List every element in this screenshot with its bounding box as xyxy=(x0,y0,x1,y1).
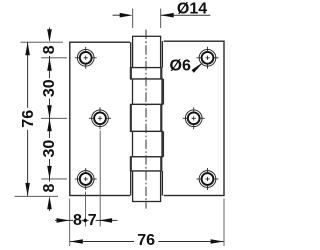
extension line plate right bottom xyxy=(223,199,225,247)
svg-text:76: 76 xyxy=(20,110,37,128)
extension line hole row 1 xyxy=(41,57,67,59)
svg-text:76: 76 xyxy=(137,232,155,249)
svg-text:8: 8 xyxy=(73,212,82,229)
knuckle K7 bottom xyxy=(133,171,161,202)
svg-text:30: 30 xyxy=(41,79,58,97)
dim 30 upper arrows xyxy=(47,58,52,71)
dimension 76 bottom arrows xyxy=(70,239,83,244)
extension line hole col 1 xyxy=(85,192,87,227)
extension line bottom datum xyxy=(15,195,59,197)
screw hole L3 xyxy=(75,168,97,190)
dimension 8+7 arrows xyxy=(57,218,70,223)
dia14 left arrow xyxy=(113,14,122,16)
pin centerline xyxy=(145,30,147,209)
extension line plate left bottom xyxy=(69,199,71,247)
knuckle K3 xyxy=(133,79,163,104)
left leaf knuckle edge xyxy=(130,42,132,67)
barrel mask xyxy=(130,36,164,201)
extension line hole row 2 xyxy=(41,117,67,119)
screw hole R3 xyxy=(197,168,219,190)
dia6 leader arrow xyxy=(192,62,205,73)
chain bottom outside arrow xyxy=(49,208,51,212)
extension line top datum xyxy=(21,41,64,43)
hinge right leaf xyxy=(162,41,224,195)
dimension 8+7 dot xyxy=(83,219,87,223)
knuckle K5 xyxy=(133,131,163,156)
extension line hole col 2 xyxy=(99,131,101,227)
svg-text:8: 8 xyxy=(41,183,58,192)
knuckle K4 xyxy=(131,104,162,131)
dimension 8+7 line xyxy=(55,219,73,221)
dim 30 lower arrows xyxy=(47,118,52,131)
screw hole R1 xyxy=(197,47,219,69)
right leaf knuckle edge xyxy=(161,41,163,67)
svg-text:8: 8 xyxy=(41,45,58,54)
dia14 leader xyxy=(161,14,211,16)
dia14 extension lines xyxy=(132,9,134,29)
screw hole L2 xyxy=(89,107,111,129)
chain top outside arrow xyxy=(49,28,51,32)
knuckle K6 xyxy=(131,157,162,171)
dimension 76 bottom line xyxy=(70,241,134,243)
svg-text:Ø14: Ø14 xyxy=(177,1,207,18)
dimension 76 left arrows xyxy=(25,42,30,55)
knuckle K2 xyxy=(131,68,162,79)
dimension 76 left line xyxy=(27,42,29,108)
svg-text:7: 7 xyxy=(88,212,97,229)
svg-text:30: 30 xyxy=(41,140,58,158)
screw hole R2 xyxy=(183,107,205,129)
knuckle K1 top xyxy=(133,36,161,67)
extension line hole row 3 xyxy=(41,178,67,180)
screw hole L1 xyxy=(75,47,97,69)
hinge left leaf xyxy=(70,42,131,195)
svg-text:Ø6: Ø6 xyxy=(170,58,191,75)
chain dimension line 8/30/30/8 xyxy=(49,56,51,78)
